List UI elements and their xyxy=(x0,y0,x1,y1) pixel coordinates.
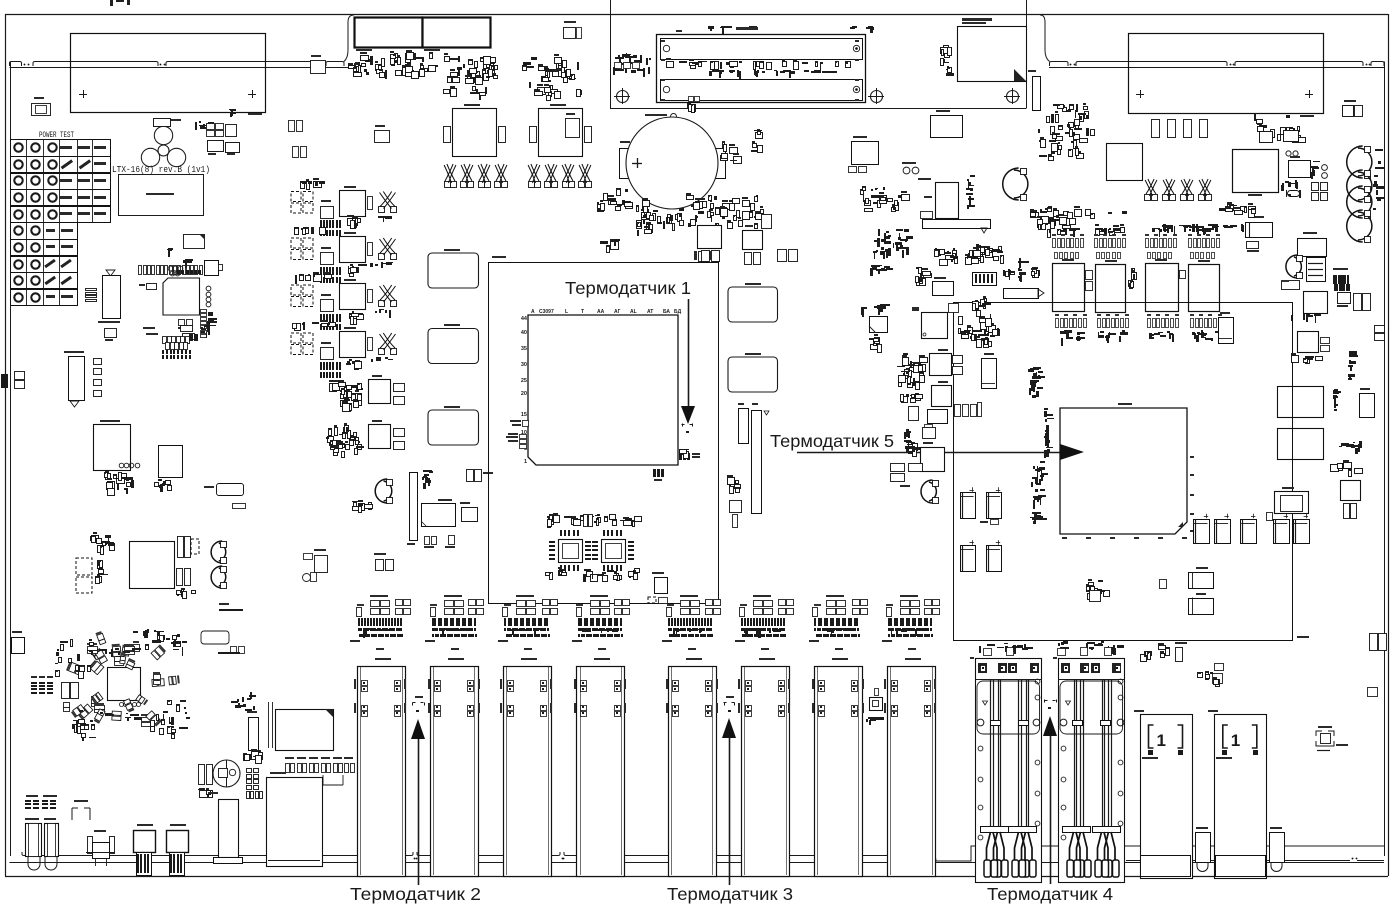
memory connector group 4 xyxy=(578,618,580,626)
component C1400 xyxy=(1316,731,1334,746)
power wire module X6 xyxy=(976,659,1042,883)
label strips vertical xyxy=(888,248,891,256)
edge connector CON3 xyxy=(521,658,537,660)
LED indicators xyxy=(25,800,31,802)
svg-text:30: 30 xyxy=(521,362,527,368)
cap C24 xyxy=(982,359,997,389)
rounded chip U39A xyxy=(201,631,229,644)
chip U230 xyxy=(928,410,948,424)
DDR chip U84 xyxy=(1053,264,1085,312)
power wire module X7 xyxy=(1059,659,1125,883)
svg-text:POWER TEST: POWER TEST xyxy=(39,131,74,140)
fan symbol xyxy=(154,126,172,144)
board top edge with breakaway tabs xyxy=(10,62,22,67)
big square R1 xyxy=(1278,387,1324,418)
rounded chip U3000 xyxy=(728,287,778,322)
RF connector T2 xyxy=(88,837,93,854)
small pairs left xyxy=(289,121,295,132)
buck converter L52 xyxy=(291,333,301,343)
arrow to sensor 2 xyxy=(411,719,425,739)
rounded chip U950 xyxy=(428,253,479,288)
edge connector CON1 xyxy=(375,658,391,660)
texture below DDR xyxy=(1056,319,1059,328)
chip A4_1 xyxy=(1289,161,1311,178)
chip U242 xyxy=(852,142,879,165)
DDR chip U87 xyxy=(1189,265,1220,312)
chip L36 xyxy=(1304,292,1328,314)
chip with corner mark xyxy=(276,710,334,751)
capacitor clamp rows xyxy=(445,182,451,188)
chip U2005 xyxy=(422,504,456,527)
cluster ctr4b xyxy=(1006,272,1009,277)
board bottom edge with breakaway tabs xyxy=(22,852,413,856)
cluster below battery xyxy=(667,220,672,224)
right edge rings xyxy=(1347,146,1363,178)
connector CON8 xyxy=(423,18,491,48)
caps above region1 xyxy=(699,252,709,262)
part R2004 xyxy=(467,470,474,482)
connector box X1 xyxy=(1141,715,1193,879)
svg-text:LTX-16(8) rev.B (1v1): LTX-16(8) rev.B (1v1) xyxy=(112,164,210,175)
cluster left of L29 xyxy=(916,396,921,401)
chip U2x xyxy=(931,116,963,138)
svg-text:Термодатчик 5: Термодатчик 5 xyxy=(770,431,894,451)
strip col right a xyxy=(1350,365,1352,371)
svg-text:БД: БД xyxy=(674,309,682,315)
DIMM socket xyxy=(657,35,866,103)
testpoint circles xyxy=(119,463,124,468)
svg-text:Термодатчик 2: Термодатчик 2 xyxy=(350,884,481,904)
edge connector CON6 xyxy=(759,658,775,660)
chip L6 right xyxy=(1298,332,1319,353)
connector CB tall xyxy=(219,800,239,858)
part Q50 xyxy=(566,119,580,138)
strip col right b xyxy=(1333,390,1335,394)
rows cluster mid xyxy=(875,188,878,189)
chip U2_2 tall xyxy=(936,183,959,219)
parts right of U2630 xyxy=(949,304,959,313)
cluster mid small xyxy=(607,246,610,253)
svg-text:T: T xyxy=(581,309,584,315)
svg-text:Термодатчик 4: Термодатчик 4 xyxy=(987,884,1113,904)
chip U2623 xyxy=(933,282,954,296)
labels left of DIMM xyxy=(617,69,624,71)
pads 2x2 right xyxy=(1312,183,1319,191)
angled parts mid xyxy=(352,501,361,502)
transistor Q1 xyxy=(870,317,888,333)
texture above DDR xyxy=(1053,239,1056,248)
arrow to sensor 5 xyxy=(797,452,1060,454)
chip U2M_1 xyxy=(462,508,478,522)
parts left of U500B xyxy=(941,59,944,66)
labels above modules xyxy=(1060,647,1069,649)
chip U2630 xyxy=(922,313,948,339)
region outline 4A01 xyxy=(489,263,719,604)
part D10 xyxy=(375,131,390,143)
svg-text:AL: AL xyxy=(630,309,637,315)
cluster below CON7 xyxy=(414,57,422,59)
DDR chip U86 xyxy=(1146,264,1179,312)
edge connector CON4 xyxy=(594,658,610,660)
buck converter L48 xyxy=(291,192,301,202)
cluster near U950c xyxy=(341,444,345,448)
connector CON3 xyxy=(137,824,153,826)
power module L5M_1 xyxy=(130,542,175,589)
chip U86s xyxy=(730,501,742,513)
edge connector CON8 xyxy=(905,658,921,660)
cluster D01 D02 xyxy=(195,122,197,130)
big square R2 xyxy=(1278,429,1324,460)
parts between DDR xyxy=(1086,271,1093,280)
chip U8M_2 xyxy=(655,578,668,594)
BGA chip U right xyxy=(1060,408,1187,534)
component A684 xyxy=(32,104,51,116)
converter L41 xyxy=(369,425,391,449)
svg-text:1: 1 xyxy=(524,459,527,465)
connector CON7 xyxy=(355,18,423,48)
electrolytic caps row xyxy=(1194,520,1210,544)
cluster ctr3 xyxy=(924,274,932,278)
cluster below U1_3 xyxy=(1289,183,1296,184)
clamp pair right xyxy=(1286,255,1298,278)
chip U504B xyxy=(94,425,131,471)
rounded resistor pack xyxy=(217,484,244,496)
bracket component C4 xyxy=(72,808,90,820)
cluster near C2M xyxy=(254,755,260,757)
chip U3r xyxy=(1107,144,1143,181)
chip U2660 xyxy=(923,428,936,439)
component R2 xyxy=(304,554,313,560)
striped part below BGA xyxy=(653,469,656,477)
rounded bar C7 xyxy=(1288,191,1300,197)
part right edge mid xyxy=(1375,326,1385,333)
svg-text:20: 20 xyxy=(521,391,527,397)
component F4 xyxy=(1298,239,1327,257)
region2 bottom parts xyxy=(1159,646,1166,650)
cluster E caps xyxy=(891,464,905,472)
cap label xyxy=(980,521,988,523)
svg-text:Термодатчик 3: Термодатчик 3 xyxy=(667,884,793,904)
cluster ctr9 xyxy=(645,212,649,215)
connector box X2 xyxy=(1215,715,1267,879)
svg-text:AT: AT xyxy=(647,309,653,315)
part R06 corner xyxy=(1343,106,1354,117)
TP circles right xyxy=(1286,151,1291,156)
arrow to sensor 4 xyxy=(1043,716,1057,736)
component BAT xyxy=(12,638,25,654)
pin block right xyxy=(1333,275,1335,284)
cluster ctr4 xyxy=(999,247,1002,251)
svg-text:Термодатчик 1: Термодатчик 1 xyxy=(565,278,691,298)
svg-text:L: L xyxy=(565,309,568,315)
arrow to sensor 1 xyxy=(688,299,690,406)
thermal sensor 3 mark xyxy=(724,702,727,704)
trimmer potentiometer xyxy=(213,760,240,787)
striped part right of BGA xyxy=(679,453,682,460)
MCU U2 with fanout xyxy=(163,278,200,315)
edge connector CON7 xyxy=(832,658,848,660)
cluster C46 xyxy=(472,80,474,83)
row U2040 xyxy=(1228,205,1234,211)
slot bar J7 xyxy=(410,473,418,541)
pin strips above Q1 xyxy=(881,306,883,312)
circles pair TP xyxy=(903,167,910,174)
cluster pads plus xyxy=(953,251,957,256)
cluster left of L30 xyxy=(916,382,920,390)
region outline right xyxy=(954,303,1293,641)
chip above arrow xyxy=(921,448,945,472)
bar MB2_0 xyxy=(249,718,259,751)
chip U506 xyxy=(159,446,183,478)
resistor array xyxy=(1004,289,1039,299)
striped inductor ctr xyxy=(973,273,997,286)
connector CON4 xyxy=(170,824,186,826)
cluster ctr4c xyxy=(1034,274,1038,278)
strip stack ctr xyxy=(967,206,969,209)
BGA left fanout xyxy=(1029,388,1031,395)
memory connector group 5 xyxy=(668,618,670,626)
chip L29 xyxy=(932,386,952,407)
rounded chip U951 xyxy=(428,329,479,364)
cluster in region2 xyxy=(1091,587,1095,593)
buck converter L51 xyxy=(291,285,301,295)
memory connector group 6 xyxy=(741,618,743,626)
BGA chip U801 xyxy=(528,315,678,465)
chip L8 xyxy=(743,231,763,250)
big clamp ctr xyxy=(1003,168,1019,200)
buck converter L49 xyxy=(291,238,301,248)
part C2542 xyxy=(778,250,787,262)
arrow to sensor 3 xyxy=(722,718,736,738)
DIMM region outline xyxy=(610,0,612,109)
power inductor modules L34 L35 xyxy=(453,109,497,157)
circles pair A4 xyxy=(1322,165,1328,171)
rounded chip U952 xyxy=(428,410,479,445)
FPGA JTAG header xyxy=(64,351,84,353)
sunburst component cluster xyxy=(108,668,141,701)
memory connector group 7 xyxy=(814,618,816,626)
pads row ctr xyxy=(955,405,961,417)
pair right edge xyxy=(1354,294,1362,311)
crosshair fiducial 1 xyxy=(617,91,629,103)
svg-text:44: 44 xyxy=(521,316,528,322)
rounded chip U3001 xyxy=(728,357,778,392)
clamp row right xyxy=(1145,195,1151,201)
svg-text:АГ: АГ xyxy=(614,309,621,315)
ring pair mid xyxy=(375,479,387,503)
chip L30 xyxy=(930,354,952,376)
tiny cap C06 xyxy=(1267,513,1273,521)
standoff V2 xyxy=(1270,833,1285,863)
DDR chip U85 xyxy=(1096,265,1126,313)
part C132 xyxy=(909,407,919,421)
cluster region2 top xyxy=(959,329,961,334)
svg-text:1: 1 xyxy=(1231,731,1240,750)
labels row2 ctr xyxy=(870,268,873,276)
cluster C56 xyxy=(577,62,579,70)
memory connector group 1 xyxy=(358,618,360,626)
striped inductor L xyxy=(1307,258,1326,282)
labels between groups xyxy=(350,640,360,642)
svg-text:A: A xyxy=(531,309,535,315)
J pin bars xyxy=(739,409,749,444)
svg-text:C3097: C3097 xyxy=(539,309,554,315)
cluster right1 xyxy=(1074,135,1080,140)
part right of region2 xyxy=(1370,634,1378,651)
thermal sensor 1 mark xyxy=(682,424,685,426)
chip small left xyxy=(698,226,722,249)
pin header 2x4 xyxy=(247,769,252,773)
board panel frame xyxy=(5,14,1388,16)
component R90 xyxy=(15,372,25,380)
strip col ctr xyxy=(1020,261,1029,263)
labels above DIMM xyxy=(710,26,712,31)
cluster right3 xyxy=(1246,223,1273,238)
parts near U39A xyxy=(231,647,237,654)
cluster right of battery xyxy=(730,148,738,154)
part right of L8 xyxy=(762,215,772,229)
memory connector group 8 xyxy=(888,618,890,626)
svg-text:AA: AA xyxy=(597,309,605,315)
chip L3 right xyxy=(1353,442,1355,443)
heatsink bracket top-left xyxy=(71,34,266,113)
cluster ctr8 xyxy=(626,205,633,209)
converter L40 xyxy=(369,380,391,404)
part C2008 xyxy=(376,560,384,571)
ruler bar component xyxy=(923,220,991,229)
crosshair fiducial 3 xyxy=(1007,91,1019,103)
cluster C156 xyxy=(982,249,985,255)
memory connector group 3 xyxy=(504,618,506,626)
striped component E39 xyxy=(219,609,228,611)
stripe col A4 xyxy=(1312,167,1319,169)
edge connector CON5 xyxy=(686,658,702,660)
chip JP1 xyxy=(184,235,205,249)
part C3060b xyxy=(1282,281,1300,290)
svg-text:25: 25 xyxy=(521,378,527,384)
CPLD JTAG header xyxy=(106,270,115,276)
thermal sensor 2 mark xyxy=(413,702,416,704)
heatsink bracket top-right xyxy=(1129,34,1324,114)
chip U3040 xyxy=(1338,293,1351,304)
cluster above U1_3 xyxy=(1271,135,1273,138)
standoff V1 xyxy=(1196,833,1211,863)
fragment of cropped label xyxy=(110,0,113,6)
serial number box xyxy=(119,175,204,216)
cluster ctr1b xyxy=(1038,223,1042,228)
battery holder BT4 xyxy=(620,149,632,179)
svg-text:15: 15 xyxy=(521,412,527,418)
thermal sensor 4 mark xyxy=(1045,700,1048,702)
parts below U2005 xyxy=(425,537,430,545)
chip U500_B xyxy=(958,27,1027,82)
parts under DIMM left xyxy=(689,97,694,102)
cluster ctr7 xyxy=(688,223,691,227)
label TH9A_1 xyxy=(645,114,667,116)
memory connector group 2 xyxy=(432,618,434,626)
svg-text:БА: БА xyxy=(663,309,670,315)
electrolytic caps left xyxy=(961,493,976,519)
cluster on CON7 xyxy=(870,698,883,711)
small part xyxy=(311,61,326,74)
module C2M_0 xyxy=(267,778,323,867)
capacitor row xyxy=(286,764,290,773)
cluster right2 xyxy=(1114,229,1122,233)
crosshair fiducial 2 xyxy=(871,91,883,103)
tall rect row xyxy=(1152,120,1160,138)
chips C20 C21 xyxy=(1189,573,1214,589)
cluster ctr6b xyxy=(913,447,918,450)
vertical strip stack xyxy=(908,443,909,448)
chip C2r xyxy=(1360,394,1375,418)
relay F9D xyxy=(1275,492,1309,514)
QFP pair cluster xyxy=(559,540,583,563)
svg-text:40: 40 xyxy=(521,330,527,336)
edge connector CON2 xyxy=(448,658,464,660)
edge component D xyxy=(1033,77,1041,111)
chip C35 region2 xyxy=(1219,318,1234,344)
svg-text:1: 1 xyxy=(1157,731,1166,750)
square chip U1_3 xyxy=(1233,150,1279,193)
component BAT top xyxy=(564,28,576,39)
chip U3_1 xyxy=(315,556,328,573)
svg-text:35: 35 xyxy=(521,346,527,352)
tiny text row xyxy=(1196,224,1198,232)
